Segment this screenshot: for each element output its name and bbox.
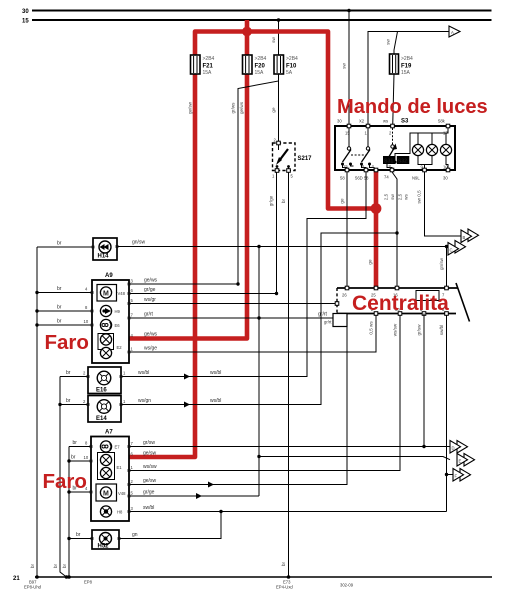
A9 lamp sub-box E2 [98, 334, 114, 350]
svg-text:15A: 15A [401, 70, 411, 76]
svg-text:>2B4: >2B4 [401, 56, 413, 62]
svg-text:H52: H52 [98, 544, 110, 550]
wire H52 left br to ground bus [69, 538, 92, 540]
svg-text:Faro: Faro [45, 331, 89, 354]
svg-text:br: br [57, 305, 62, 311]
S3 top terminal 30 [347, 124, 351, 128]
wire branch from pin8 wire to lamp E14 row [121, 233, 397, 405]
svg-text:S32: S32 [398, 159, 407, 165]
A7 headlamp bulb 1 [100, 454, 111, 465]
Centralita top terminal 25 [374, 286, 378, 290]
svg-text:ws: ws [404, 193, 409, 199]
svg-text:br: br [71, 455, 76, 461]
wire F19 bottom to S3 terminal [393, 74, 394, 126]
A7 row gr/sw to arrow D [129, 440, 450, 448]
svg-text:br: br [73, 440, 78, 446]
svg-text:br: br [281, 198, 286, 203]
svg-text:E1: E1 [117, 465, 123, 470]
wire red: F20 top stub [245, 32, 250, 56]
wire junction down to Centralita pin 7 [446, 247, 448, 289]
S3 pilot lamp 1 [412, 133, 424, 170]
svg-text:58: 58 [340, 176, 345, 181]
svg-text:M: M [103, 491, 109, 498]
wire S3 pin 15/58 down to Centralita pin 26 [346, 172, 348, 288]
svg-text:sw/bl: sw/bl [439, 325, 444, 335]
wire S3 pin 8 (74) down to Centralita pin 16 [392, 172, 397, 288]
svg-text:ws/gr: ws/gr [144, 297, 156, 303]
headlight unit A7 box [91, 430, 129, 522]
svg-text:F19: F19 [401, 64, 412, 70]
svg-text:>2B4: >2B4 [286, 56, 298, 62]
Centralita bottom terminal 8 [445, 312, 449, 316]
A7 headlamp bulb 2 [100, 467, 111, 478]
wire S3 pin 5 (56D) to lamp E16 row [121, 172, 366, 377]
svg-text:30: 30 [443, 176, 448, 181]
svg-text:0,5 ws: 0,5 ws [369, 321, 374, 335]
A9 lamp E6 [100, 319, 120, 330]
svg-text:15A: 15A [255, 70, 265, 76]
svg-text:A: A [451, 30, 454, 35]
wire H14 gn/sw to arrow C and Centralita pin 7 [117, 246, 447, 248]
wire S217 pin5 down to ground bus [288, 172, 290, 577]
svg-text:EP8: EP8 [84, 580, 93, 585]
svg-text:ge/ws: ge/ws [144, 332, 158, 338]
svg-text:ws/bl: ws/bl [210, 370, 221, 376]
svg-text:gn/sw: gn/sw [132, 240, 145, 246]
svg-text:gr/ws: gr/ws [231, 102, 236, 114]
svg-text:B: B [463, 235, 466, 240]
S31 connector box [383, 156, 396, 165]
svg-text:F21: F21 [203, 64, 214, 70]
wire Centralita pin 3 down to arrow D junction [423, 314, 425, 447]
svg-text:302-09: 302-09 [340, 583, 354, 588]
S3 switch contact 2 [360, 128, 374, 170]
S3 pilot lamp 2 [425, 133, 438, 165]
svg-text:ge: ge [340, 198, 345, 204]
svg-text:30: 30 [337, 119, 342, 124]
svg-text:74: 74 [384, 175, 389, 180]
Centralita left terminal ws/gr [335, 302, 339, 306]
svg-text:sw: sw [342, 63, 347, 69]
Centralita top terminal 16 [395, 286, 399, 290]
A7 left pin 10 wire br [67, 455, 91, 463]
svg-text:gn: gn [132, 532, 138, 538]
A7 motor V48 sub-box [96, 484, 126, 501]
svg-text:gr/ge: gr/ge [144, 287, 156, 293]
wire red: F20 output down to headlight A9 [129, 74, 247, 339]
svg-text:>2B4: >2B4 [255, 56, 267, 62]
svg-text:S217: S217 [298, 156, 313, 162]
A7 lamp E7 [100, 441, 120, 452]
wire F10 output diagonal branch to A9 row [238, 74, 279, 284]
svg-text:ws/bl: ws/bl [210, 398, 221, 404]
svg-text:ge/sw: ge/sw [188, 101, 193, 114]
A7 row gr/ge up mid vertical [129, 490, 259, 500]
wire H52 gn up to sw/bl row [119, 512, 221, 539]
component terminal pins (black squares) [87, 245, 131, 540]
ground node E16/E14 bus [65, 575, 69, 579]
S3 pilot lamp 3 [440, 133, 451, 170]
A7 lamp H8 [100, 506, 123, 517]
svg-text:58k: 58k [438, 119, 446, 124]
wire F10 output down to switch S217 [278, 78, 280, 143]
svg-text:gr/rt: gr/rt [318, 312, 328, 318]
svg-text:H14: H14 [98, 254, 110, 260]
S3 bottom terminals [345, 168, 349, 172]
svg-text:gr/rt: gr/rt [324, 320, 332, 325]
lamp E16 [83, 367, 126, 394]
arrow B off-page connector [461, 229, 479, 243]
svg-text:gn/sw: gn/sw [439, 257, 444, 270]
arrow E off-page connector [457, 454, 475, 467]
fuse F21 15A [191, 55, 215, 76]
svg-text:ge/ws: ge/ws [239, 101, 244, 114]
svg-text:F: F [455, 474, 458, 479]
A9 row ws/ge to Centralita bottom pin [129, 314, 376, 353]
S3 mechanical coupling dashed [351, 154, 366, 156]
svg-text:X2: X2 [359, 119, 365, 124]
node junction arrow F stub [445, 473, 448, 476]
svg-text:30: 30 [22, 9, 29, 15]
A7 row sw/bl to arrow F / Centralita pin 8 [129, 505, 447, 513]
lamp H52 [92, 530, 119, 550]
svg-text:gr/sw: gr/sw [143, 440, 155, 446]
Centralita bottom terminal 2 [374, 312, 378, 316]
arrow C off-page connector [448, 241, 466, 256]
A9 left pin 10 wire br [35, 319, 92, 327]
Centralita control unit box [337, 283, 470, 322]
arrow D off-page connector [450, 441, 468, 454]
svg-text:br: br [57, 319, 62, 325]
svg-text:br: br [281, 561, 286, 566]
svg-text:E16: E16 [96, 388, 107, 394]
svg-text:ws/sw: ws/sw [143, 464, 157, 470]
wire bus15 to F10 [278, 20, 280, 55]
A9 row gr/rt to small connector box [129, 312, 333, 320]
switch S217 [272, 138, 312, 179]
S3 top terminal from F19 [391, 124, 395, 128]
svg-text:F20: F20 [255, 64, 266, 70]
A9 headlamp bulb 2 [100, 347, 111, 358]
wire mid vertical from gn/sw down to A7 gr/ge row [258, 247, 260, 497]
fuse F19 15A [390, 54, 414, 76]
svg-text:EP8-Uhd: EP8-Uhd [24, 585, 42, 590]
svg-text:br: br [62, 563, 67, 568]
svg-text:E2: E2 [117, 345, 123, 350]
svg-text:E6: E6 [115, 323, 121, 328]
svg-text:A7: A7 [105, 430, 113, 436]
svg-text:ws/bl: ws/bl [138, 370, 149, 376]
svg-text:Faro: Faro [43, 470, 87, 493]
wire red: F21 output down to headlight A7 [129, 74, 195, 457]
ground node H14 bus [35, 575, 39, 579]
svg-text:56D 58: 56D 58 [355, 176, 369, 181]
Centralita bottom terminal 30 [398, 312, 402, 316]
wire S3 terminal X up and right to arrow A [368, 32, 449, 127]
svg-text:br: br [66, 398, 71, 404]
bus bar 30 [22, 9, 492, 15]
svg-text:Mando de luces: Mando de luces [337, 96, 488, 118]
node on bus 15 feeding fuse F10 [277, 18, 281, 22]
svg-text:M: M [103, 291, 109, 298]
wire branch to arrow E [259, 457, 450, 460]
svg-text:21: 21 [13, 576, 20, 582]
svg-text:sw: sw [386, 39, 391, 45]
svg-text:H9: H9 [115, 309, 121, 314]
svg-text:15: 15 [345, 131, 350, 136]
svg-text:C: C [450, 248, 453, 253]
A7 row ws/sw up to Centralita pin 30 [129, 314, 400, 471]
svg-text:ws/ge: ws/ge [144, 346, 157, 352]
fuse F20 15A [243, 55, 267, 76]
wire E16 left br to ground [60, 376, 88, 378]
wire Centralita pin 8 down to sw/bl row [446, 314, 448, 512]
Centralita top terminal 7 [445, 286, 449, 290]
svg-text:S3: S3 [401, 119, 409, 125]
light switch S3 box [335, 119, 455, 171]
svg-text:ge/sw: ge/sw [143, 451, 156, 457]
svg-text:15A: 15A [203, 70, 213, 76]
svg-text:gr/sw: gr/sw [417, 324, 422, 336]
svg-text:2,5: 2,5 [384, 193, 389, 200]
A9 left pin 8 wire br [35, 305, 92, 313]
svg-text:E7: E7 [115, 445, 121, 450]
A7 lamp sub-box E1 [98, 453, 115, 480]
wire S217 pin1 down to A9 gr/ge row [276, 172, 278, 294]
A7 row ge/sw to small connector box [129, 327, 347, 488]
svg-text:br: br [76, 532, 81, 538]
node junction E14 on ground bus [58, 403, 61, 406]
A9 row ws/gr to Centralita left pin [129, 297, 337, 304]
ground bus (A7/H52) [68, 447, 70, 578]
S3 top terminal X [366, 124, 370, 128]
headlight unit A9 box [92, 273, 129, 363]
svg-text:10: 10 [84, 319, 89, 324]
svg-text:H8: H8 [117, 510, 123, 515]
S3 switch contact 1 [341, 128, 354, 170]
S32 connector box [397, 156, 410, 165]
svg-text:5A: 5A [286, 70, 293, 76]
arrow A off-page connector [449, 26, 460, 37]
svg-text:>2B4: >2B4 [203, 56, 215, 62]
svg-text:ge: ge [368, 259, 373, 265]
A9 row ge/ws to junction [129, 278, 240, 286]
svg-text:ws: ws [383, 119, 388, 124]
svg-text:gr/ge: gr/ge [269, 195, 274, 206]
fuse F10 5A [274, 55, 298, 76]
svg-text:26: 26 [342, 293, 347, 298]
svg-text:V48: V48 [118, 291, 126, 296]
small connector box below Centralita [324, 314, 347, 327]
ground bus (E16/E14) [60, 377, 67, 578]
svg-text:2,5: 2,5 [398, 193, 403, 200]
svg-text:ge: ge [271, 107, 276, 113]
svg-text:10: 10 [84, 455, 89, 460]
svg-text:EP4-Uxd: EP4-Uxd [276, 585, 293, 590]
svg-text:ws/sw: ws/sw [393, 323, 398, 336]
wire F19 top diagonal to X-wire [394, 32, 398, 55]
svg-text:N9L: N9L [412, 176, 420, 181]
svg-text:D: D [452, 446, 455, 451]
bus bar 15 [22, 19, 492, 25]
S3 lamp rail and terminal 17 drop [418, 128, 448, 133]
wire red: bus15 tap down to junction [245, 20, 250, 32]
A9 row gr/ge to S217 junction [129, 287, 278, 295]
A9 motor V48 sub-box [97, 285, 126, 302]
A9 lamp H9 [100, 305, 120, 316]
svg-text:E14: E14 [96, 416, 107, 422]
ground bus left (br) down from H14 [36, 247, 38, 577]
Centralita bottom terminal 3 [422, 312, 426, 316]
node junction on gn/sw wire [445, 245, 448, 248]
S3 top terminal 58k [446, 124, 450, 128]
svg-text:Centralita: Centralita [352, 292, 449, 315]
svg-text:15: 15 [22, 19, 29, 25]
node junction gn/sw to mid vertical [257, 245, 260, 248]
svg-text:sw: sw [271, 37, 276, 43]
node junction pin8 wire / E14 branch [395, 231, 398, 234]
Centralita top terminal 26 [345, 286, 349, 290]
Centralita inner relay box [416, 291, 439, 301]
svg-text:sw 0,5: sw 0,5 [417, 190, 422, 204]
svg-text:br: br [66, 370, 71, 376]
A9 left pin 4 wire br [35, 286, 92, 294]
lamp E14 [83, 396, 126, 423]
S3 switch contact 3 with arrow [386, 128, 419, 170]
A7 left pin 8 wire br [69, 440, 91, 447]
svg-text:ws/gn: ws/gn [138, 398, 151, 404]
wire H14 left to ground bus [37, 246, 93, 248]
svg-text:F10: F10 [286, 64, 297, 70]
node red junction at S3/Centralita branch [371, 203, 382, 214]
svg-text:E: E [459, 459, 462, 464]
svg-text:br: br [57, 241, 62, 247]
svg-text:gr/rt: gr/rt [144, 312, 154, 318]
wire red: S3 terminal 4 down to Centralita terminal 25 [374, 170, 379, 288]
node red junction on feeder rail [242, 27, 252, 37]
wire bus30 down to S3 terminal 30 [348, 11, 350, 127]
A9 headlamp bulb 1 [100, 334, 111, 345]
arrow F stub wire [447, 474, 454, 476]
wire red: top feeder rail to F21 / F20 / S3 branch [195, 32, 376, 209]
ground node S217 bus [287, 575, 291, 579]
svg-text:sw: sw [390, 194, 395, 200]
arrow F off-page connector [453, 469, 471, 482]
svg-text:br: br [53, 563, 58, 568]
svg-text:ge/ws: ge/ws [144, 278, 158, 284]
svg-text:sw/bl: sw/bl [143, 505, 154, 511]
wire E14 left br to ground [60, 404, 88, 406]
node junction on mid vertical at arrow E branch [257, 455, 260, 458]
svg-text:A9: A9 [105, 273, 113, 279]
ground bus bottom rail [35, 576, 492, 578]
A7 left pin 4 wire br [67, 486, 91, 494]
svg-text:gr/ge: gr/ge [143, 490, 155, 496]
svg-text:br: br [30, 563, 35, 568]
wire S3 pin 9 (N9L) to arrow B [425, 172, 462, 236]
svg-text:br: br [57, 286, 62, 292]
svg-text:ge/sw: ge/sw [143, 478, 156, 484]
ground node A7 bus [67, 575, 71, 579]
svg-text:V48: V48 [118, 491, 126, 496]
horn H14 [93, 238, 117, 260]
node on bus 30 feeding S3 terminal 30 [347, 9, 351, 13]
